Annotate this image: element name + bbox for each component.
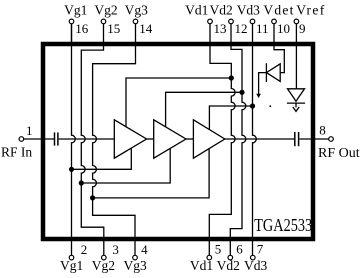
svg-text:Vdet: Vdet xyxy=(263,2,293,17)
svg-text:2: 2 xyxy=(81,242,88,257)
svg-text:Vg2: Vg2 xyxy=(94,2,117,17)
svg-text:Vd3: Vd3 xyxy=(244,258,267,273)
svg-text:TGA2533: TGA2533 xyxy=(254,215,312,235)
svg-text:Vd2: Vd2 xyxy=(210,2,233,17)
pin 14 terminal xyxy=(133,19,138,24)
pin 2 terminal xyxy=(69,255,74,260)
pin 1 terminal RF In xyxy=(19,137,24,142)
pin 5 terminal xyxy=(207,255,212,260)
diode D1 cathode bar xyxy=(265,63,267,82)
wire Vd1 from pin 13 jog right then down to pin 5 with hops xyxy=(209,24,235,255)
diode D1 detector xyxy=(266,64,280,82)
svg-text:15: 15 xyxy=(107,21,120,36)
svg-text:Vg1: Vg1 xyxy=(64,2,87,17)
svg-text:Vg1: Vg1 xyxy=(60,258,83,273)
svg-text:6: 6 xyxy=(236,242,243,257)
wire RF from C2 to pin 8 xyxy=(299,138,328,140)
svg-text:9: 9 xyxy=(299,21,306,36)
node Vg3 junction xyxy=(90,195,95,200)
IC package TGA2533 outline xyxy=(43,44,313,239)
pin 11 terminal xyxy=(250,19,255,24)
pin 8 terminal RF Out xyxy=(329,137,334,142)
wire Vd1 branch to A1 drain xyxy=(126,78,231,127)
op-amp A1 first gain stage xyxy=(114,120,146,158)
pin 13 terminal xyxy=(208,19,213,24)
svg-text:16: 16 xyxy=(75,21,89,36)
diode D2 reference xyxy=(288,89,305,101)
capacitor C1 input DC block xyxy=(55,132,58,145)
pin 9 terminal xyxy=(294,19,299,24)
wire RF input from pin 1 to coupling cap xyxy=(24,138,54,140)
wire Vg2 from pin 15 down, jog left, to pin 3 with hops xyxy=(81,24,104,255)
svg-text:4: 4 xyxy=(141,242,148,257)
node stray tap dot xyxy=(269,105,271,107)
wire pin 16 top stub xyxy=(71,24,73,46)
pin 4 terminal xyxy=(133,255,138,260)
svg-text:10: 10 xyxy=(277,21,290,36)
pin 16 terminal xyxy=(69,19,74,24)
wire Vref from pin 9 down to reference diode xyxy=(295,24,297,89)
svg-text:Vd3: Vd3 xyxy=(237,2,260,17)
svg-text:14: 14 xyxy=(139,21,153,36)
pin 7 terminal xyxy=(251,255,256,260)
wire Vd3 vertical pin 11 to pin 7 with hop over RF line xyxy=(253,24,257,255)
node Vd2 junction xyxy=(239,90,244,95)
wire D1 cathode to RF tap arrow xyxy=(259,73,267,95)
node Vg2 junction xyxy=(79,180,84,185)
wire D2 cathode stub xyxy=(295,103,297,107)
node Vd1 junction xyxy=(229,75,234,80)
svg-text:7: 7 xyxy=(257,242,264,257)
wire Vg1 vertical pin 16 to pin 2 with hop over RF line xyxy=(72,24,76,255)
diode D2 cathode bar xyxy=(287,102,305,104)
wire Vg3 branch to A3 gate xyxy=(93,149,210,198)
op-amp A3 third gain stage xyxy=(193,120,224,158)
wire RF from C1 to amplifier A1 input xyxy=(59,138,115,140)
wire A2 output to A3 input xyxy=(186,138,193,140)
wire Vdet from pin 10 jog right to detector diode anode xyxy=(274,24,284,73)
arrow reference tap xyxy=(293,107,299,111)
svg-text:11: 11 xyxy=(256,21,269,36)
svg-text:5: 5 xyxy=(215,242,222,257)
pin 12 terminal xyxy=(229,19,234,24)
svg-text:12: 12 xyxy=(235,21,248,36)
svg-text:1: 1 xyxy=(26,123,33,138)
svg-text:Vg3: Vg3 xyxy=(125,2,148,17)
pin 15 terminal xyxy=(101,19,106,24)
capacitor C2 output DC block xyxy=(295,132,299,146)
node Vg1 junction xyxy=(69,167,74,172)
node Vd3 junction xyxy=(250,103,255,108)
svg-text:Vd2: Vd2 xyxy=(217,258,240,273)
op-amp A2 second gain stage xyxy=(154,120,186,158)
svg-text:Vref: Vref xyxy=(296,2,325,17)
pin 6 terminal xyxy=(228,255,233,260)
pin 3 terminal xyxy=(102,255,107,260)
svg-text:Vd1: Vd1 xyxy=(190,258,213,273)
svg-text:13: 13 xyxy=(214,21,227,36)
svg-text:8: 8 xyxy=(319,123,326,138)
svg-text:Vg3: Vg3 xyxy=(124,258,147,273)
svg-text:Vd1: Vd1 xyxy=(185,2,208,17)
svg-text:RF Out: RF Out xyxy=(318,146,360,161)
wire Vg2 branch to A2 gate xyxy=(81,149,170,183)
wire A1 output to A2 input xyxy=(147,138,154,140)
wire Vd2 branch to A2 drain xyxy=(166,92,242,127)
svg-text:3: 3 xyxy=(112,242,119,257)
wire Vg3 from pin 14 down, jog left, to pin 4 with hops xyxy=(93,24,136,255)
pin 10 terminal xyxy=(272,19,277,24)
svg-text:Vg2: Vg2 xyxy=(92,258,115,273)
wire Vg1 branch to A1 gate xyxy=(72,149,132,170)
wire Vd2 from pin 12 jog right then down to pin 6 with hops xyxy=(230,24,246,255)
wire Vd3 branch to A3 drain xyxy=(209,106,252,129)
wire RF from A3 output to output cap xyxy=(225,138,294,140)
arrow detector tap xyxy=(256,94,261,98)
svg-text:RF In: RF In xyxy=(1,144,32,159)
